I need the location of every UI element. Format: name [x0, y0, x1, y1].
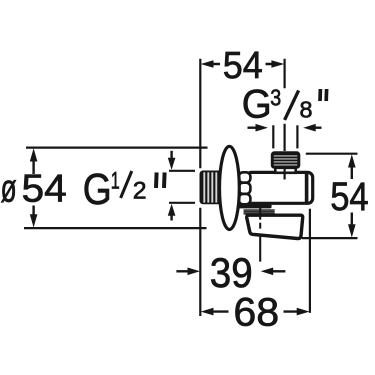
valve knob (knurled handle) [271, 151, 301, 169]
hex nut behind flange : bottom facet [239, 194, 251, 204]
svg-text:54: 54 [22, 168, 67, 211]
G1/2 dimension arrow down (above) [168, 151, 176, 170]
label G3/8" : fraction slash [285, 90, 299, 120]
dim 68 dimension line with arrows (inside, pointing outward) [201, 308, 310, 316]
svg-text:2: 2 [133, 178, 147, 205]
svg-text:8: 8 [300, 97, 313, 123]
hex nut behind flange : top facet [239, 172, 251, 182]
outlet center line (dashed segments, x=260.2) [259, 204, 261, 262]
svg-text:54: 54 [330, 175, 369, 219]
G1/2 dimension extension line top (y=170.8) [169, 170, 195, 172]
valve body end-cap joint line [305, 174, 309, 202]
label G3/8" : inch double prime [320, 89, 327, 101]
left dim ø54 : extension line top (y=147.6) [26, 147, 208, 149]
G3/8 dimension arrows (outside, pointing inward) [248, 124, 322, 132]
right dim 54 : vertical dimension line with arrows [348, 154, 356, 237]
svg-text:3: 3 [270, 85, 281, 111]
knob collar [275, 168, 295, 173]
svg-text:1: 1 [111, 167, 120, 194]
G1/2 dimension extension line bottom (y=202.8) [169, 202, 195, 204]
stem center line through collar [284, 169, 286, 180]
svg-text:G: G [242, 82, 272, 126]
angled outlet spout [247, 215, 303, 238]
svg-text:ø: ø [1, 168, 17, 211]
hex nut behind flange : middle facet [239, 183, 251, 194]
valve body [247, 172, 313, 203]
threaded inlet G1/2 (hatched) [200, 171, 224, 205]
dim 39 arrows (outside, pointing inward) [176, 268, 285, 276]
label G1/2" : fraction slash [121, 171, 132, 198]
left dim ø54 : extension line bottom (y=228.1) [24, 227, 207, 229]
svg-text:39: 39 [210, 249, 253, 296]
dimension line top 54 [201, 60, 285, 68]
G3/8 dimension extension lines [273, 125, 297, 148]
svg-text:G: G [83, 166, 112, 214]
extension line left (x=200, upper + lower segments) [199, 59, 201, 316]
left dim ø54 : vertical dimension line with arrows [30, 148, 38, 227]
svg-text:54: 54 [223, 45, 263, 87]
G1/2 dimension arrow up (below) [168, 204, 176, 221]
extension line right / valve stem axis (x=284.6) [284, 59, 286, 151]
wall flange (ellipse) [220, 146, 240, 229]
outlet fitting bar under body [238, 204, 272, 208]
outlet compression nut (hatched band) [244, 209, 275, 214]
dim 68 right extension line (x=309.9) [309, 209, 311, 313]
label G1/2" : inch double prime [156, 172, 165, 188]
right dim 54 : extension line top (y=153.7) [306, 153, 358, 155]
svg-text:68: 68 [233, 291, 279, 335]
right dim 54 : extension line bottom (y=238.1) [302, 237, 358, 239]
